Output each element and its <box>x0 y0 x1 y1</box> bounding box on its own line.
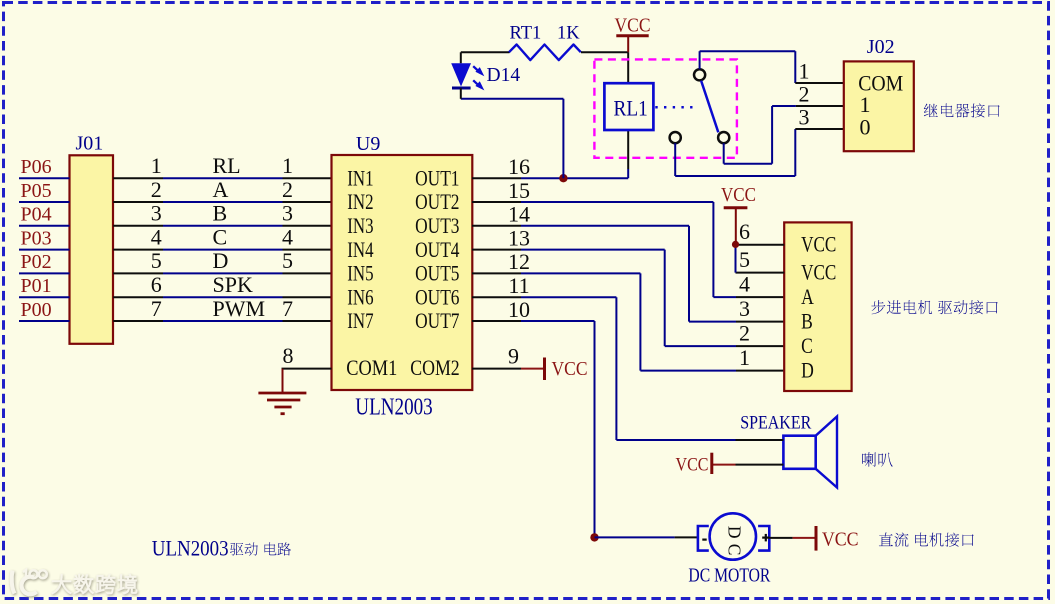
svg-text:13: 13 <box>508 225 530 250</box>
svg-text:RL1: RL1 <box>614 96 648 121</box>
svg-text:P05: P05 <box>21 180 52 202</box>
svg-text:IN3: IN3 <box>347 213 373 238</box>
svg-text:VCC: VCC <box>721 184 756 206</box>
svg-text:C: C <box>213 224 228 249</box>
svg-text:3: 3 <box>282 201 293 226</box>
svg-text:9: 9 <box>508 343 519 368</box>
svg-text:ULN2003: ULN2003 <box>152 536 229 561</box>
svg-text:ULN2003: ULN2003 <box>355 395 432 421</box>
svg-text:14: 14 <box>508 202 530 227</box>
svg-text:OUT4: OUT4 <box>415 237 459 262</box>
svg-text:2: 2 <box>739 321 750 346</box>
svg-text:OUT2: OUT2 <box>415 189 459 214</box>
svg-text:VCC: VCC <box>615 15 651 37</box>
svg-text:P03: P03 <box>21 227 52 249</box>
svg-text:OUT3: OUT3 <box>415 213 459 238</box>
svg-text:VCC: VCC <box>801 259 836 284</box>
svg-text:SPK: SPK <box>213 272 253 297</box>
svg-text:3: 3 <box>739 296 750 321</box>
svg-text:IN5: IN5 <box>347 261 373 286</box>
svg-text:IN2: IN2 <box>347 189 373 214</box>
svg-text:3: 3 <box>151 201 162 226</box>
svg-text:12: 12 <box>508 249 530 274</box>
svg-text:7: 7 <box>151 296 162 321</box>
svg-text:VCC: VCC <box>676 455 709 476</box>
svg-text:P01: P01 <box>21 275 52 297</box>
svg-text:C: C <box>801 333 813 358</box>
svg-text:D14: D14 <box>487 65 521 86</box>
svg-text:16: 16 <box>508 154 530 179</box>
svg-text:RT1: RT1 <box>510 24 542 44</box>
svg-text:11: 11 <box>508 273 529 298</box>
svg-text:J02: J02 <box>867 36 895 58</box>
svg-text:1: 1 <box>151 153 162 178</box>
svg-text:2: 2 <box>282 177 293 202</box>
svg-text:10: 10 <box>508 297 530 322</box>
svg-text:IN7: IN7 <box>347 308 373 333</box>
svg-text:7: 7 <box>282 296 293 321</box>
svg-text:SPEAKER: SPEAKER <box>740 413 811 434</box>
svg-text:IN6: IN6 <box>347 284 373 309</box>
svg-text:D: D <box>801 357 814 382</box>
svg-text:3: 3 <box>799 105 810 130</box>
svg-text:COM1: COM1 <box>346 355 397 380</box>
svg-text:IN4: IN4 <box>347 237 373 262</box>
svg-text:0: 0 <box>860 115 871 140</box>
svg-text:D: D <box>213 248 229 273</box>
svg-text:VCC: VCC <box>822 529 859 551</box>
svg-text:15: 15 <box>508 178 530 203</box>
svg-text:RL: RL <box>213 153 241 178</box>
svg-text:6: 6 <box>739 219 750 244</box>
svg-text:P06: P06 <box>21 156 52 178</box>
svg-text:6: 6 <box>151 272 162 297</box>
svg-text:P02: P02 <box>21 251 52 273</box>
svg-text:P04: P04 <box>21 204 52 226</box>
svg-text:OUT7: OUT7 <box>415 308 459 333</box>
svg-text:4: 4 <box>739 272 750 297</box>
svg-text:1: 1 <box>799 59 810 84</box>
svg-text:B: B <box>213 201 228 226</box>
svg-text:1: 1 <box>282 153 293 178</box>
svg-text:2: 2 <box>799 82 810 107</box>
svg-text:COM2: COM2 <box>410 355 460 380</box>
svg-text:C: C <box>725 544 745 556</box>
svg-text:U9: U9 <box>356 133 380 155</box>
svg-text:A: A <box>213 177 229 202</box>
svg-text:2: 2 <box>151 177 162 202</box>
svg-text:1K: 1K <box>557 24 580 44</box>
svg-text:4: 4 <box>151 224 162 249</box>
svg-text:P00: P00 <box>21 299 52 321</box>
svg-text:5: 5 <box>151 248 162 273</box>
svg-text:1: 1 <box>860 92 871 117</box>
svg-text:DC MOTOR: DC MOTOR <box>688 566 770 587</box>
svg-text:PWM: PWM <box>213 296 266 321</box>
svg-text:J01: J01 <box>76 133 104 155</box>
svg-text:8: 8 <box>283 343 294 368</box>
svg-text:D: D <box>724 526 744 539</box>
svg-text:5: 5 <box>282 248 293 273</box>
svg-text:B: B <box>801 308 813 333</box>
svg-text:OUT5: OUT5 <box>415 261 459 286</box>
svg-text:VCC: VCC <box>552 358 588 380</box>
svg-text:5: 5 <box>739 247 750 272</box>
svg-text:OUT6: OUT6 <box>415 284 459 309</box>
svg-text:A: A <box>801 284 814 309</box>
svg-text:4: 4 <box>282 224 293 249</box>
svg-text:VCC: VCC <box>801 232 836 257</box>
svg-text:1: 1 <box>739 345 750 370</box>
svg-text:OUT1: OUT1 <box>415 165 459 190</box>
svg-text:IN1: IN1 <box>347 165 373 190</box>
